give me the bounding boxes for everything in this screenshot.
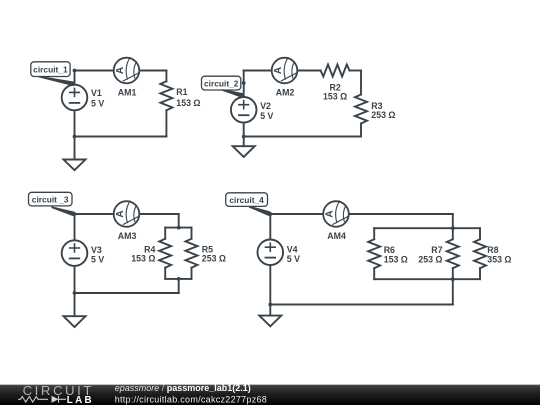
V3 minus sign: [70, 257, 80, 259]
ammeter AM2: [272, 58, 298, 84]
wire corner down to parallel top: [178, 214, 180, 228]
wire R6 bottom lead: [373, 268, 375, 279]
wire node to AM3: [75, 213, 114, 215]
ammeter AM1: [114, 58, 140, 84]
svg-text:353 Ω: 353 Ω: [487, 254, 511, 264]
svg-text:AM1: AM1: [118, 88, 137, 98]
svg-text:V2: V2: [260, 101, 271, 111]
AM3 needle: [123, 216, 139, 224]
AM1 dial arcs: [126, 58, 136, 80]
wire V1 bottom: [74, 110, 76, 136]
wire AM4 to corner: [349, 213, 453, 215]
junction R4 R5 bottom: [177, 277, 181, 281]
wire R5 bottom lead: [191, 268, 193, 279]
voltage source V3: [62, 240, 88, 266]
wire bottom rail R6 R7 R8: [374, 278, 480, 280]
svg-text:AM3: AM3: [118, 231, 137, 241]
wire R4 top lead: [164, 228, 166, 239]
svg-text:153 Ω: 153 Ω: [384, 254, 408, 264]
wire AM3 to corner: [139, 213, 178, 215]
resistor R3: [355, 95, 367, 124]
svg-text:A: A: [115, 67, 126, 74]
V4 minus sign: [266, 257, 276, 259]
wire corner to V3 top: [74, 214, 76, 240]
wire R5 top lead: [191, 228, 193, 239]
flag pointer circuit_2: [220, 89, 244, 99]
svg-text:153 Ω: 153 Ω: [131, 254, 155, 264]
wire parallel bottom down: [452, 279, 454, 304]
flag box circuit_1: [31, 62, 70, 77]
ground circuit 4: [259, 316, 281, 327]
wire bottom rail circuit 3: [75, 292, 179, 294]
resistor R8: [474, 239, 486, 268]
wire R3 bottom lead: [360, 124, 362, 137]
svg-text:http://circuitlab.com/cakcz227: http://circuitlab.com/cakcz2277pz68: [115, 394, 267, 404]
svg-text:153 Ω: 153 Ω: [176, 98, 200, 108]
svg-text:253 Ω: 253 Ω: [418, 254, 442, 264]
AM3 dial arcs: [126, 201, 136, 223]
wire node to AM1: [75, 70, 114, 72]
V2 minus sign: [239, 114, 249, 116]
wire bottom rail R4 R5: [165, 278, 191, 280]
wire ground stub circuit 1: [74, 137, 76, 160]
AM1 needle: [123, 73, 139, 81]
node circuit_4 flag attach: [268, 212, 272, 216]
wire R6 top lead: [373, 228, 375, 239]
wire R4 bottom lead: [164, 268, 166, 279]
svg-text:A: A: [273, 67, 284, 74]
voltage source V2: [231, 97, 257, 123]
junction node circuit 1 top: [73, 69, 77, 73]
wire bottom rail circuit 2: [244, 136, 361, 138]
flag box circuit_2: [202, 76, 241, 90]
wire V1 top to node: [74, 71, 76, 85]
svg-text:253 Ω: 253 Ω: [371, 110, 395, 120]
wire bottom rail circuit 1: [75, 136, 167, 138]
wire R7 bottom lead: [452, 268, 454, 279]
wire R2 to corner: [350, 70, 362, 72]
AM4 dial arcs: [336, 201, 346, 223]
svg-text:R1: R1: [176, 87, 187, 97]
svg-text:circuit_4: circuit_4: [229, 195, 264, 205]
wire corner to AM2: [244, 70, 272, 72]
junction circuit 2 bottom: [242, 135, 246, 139]
wire R1 bottom lead: [165, 110, 167, 136]
svg-text:circuit_1: circuit_1: [33, 64, 68, 74]
footer bar: [0, 385, 540, 405]
svg-text:A: A: [324, 210, 335, 217]
svg-text:V4: V4: [287, 244, 298, 254]
resistor R6: [368, 239, 380, 268]
wire top rail R4 R5: [165, 227, 191, 229]
svg-text:253 Ω: 253 Ω: [202, 254, 226, 264]
junction R6 R7 R8 top: [451, 226, 455, 230]
svg-text:5 V: 5 V: [287, 254, 300, 264]
voltage source V4: [258, 240, 284, 266]
wire R8 top lead: [479, 228, 481, 239]
wire parallel bottom down: [178, 279, 180, 293]
wire top rail R6 R7 R8: [374, 227, 480, 229]
V2 plus sign: [239, 101, 249, 109]
svg-text:5 V: 5 V: [91, 98, 104, 108]
ground circuit 2: [233, 146, 255, 157]
junction R6 R7 R8 bottom: [451, 277, 455, 281]
wire V2 bottom: [243, 123, 245, 137]
resistor R7: [447, 239, 459, 268]
flag pointer circuit_3: [51, 206, 74, 216]
wire ground stub circuit 4: [269, 305, 271, 316]
V1 minus sign: [70, 102, 80, 104]
ground circuit 3: [64, 316, 86, 327]
logo diode triangle: [52, 396, 59, 403]
svg-text:A: A: [115, 210, 126, 217]
wire bottom rail circuit 4: [270, 304, 453, 306]
wire R7 top lead: [452, 228, 454, 239]
wire V4 bottom: [269, 265, 271, 304]
voltage source V1: [62, 85, 88, 111]
wire AM2 to R2: [297, 70, 320, 72]
junction R4 R5 top: [177, 226, 181, 230]
wire corner down to parallel top: [452, 214, 454, 228]
wire R3 top lead: [360, 71, 362, 95]
wire ground stub circuit 3: [74, 293, 76, 316]
resistor R4: [159, 239, 171, 268]
node circuit_2 flag attach: [242, 81, 246, 85]
junction circuit 3 bottom: [73, 291, 77, 295]
svg-text:153 Ω: 153 Ω: [323, 92, 347, 102]
V1 plus sign: [70, 88, 80, 96]
svg-text:LAB: LAB: [67, 395, 94, 405]
junction circuit 4 bottom: [268, 303, 272, 307]
resistor R2: [321, 65, 350, 77]
svg-text:AM4: AM4: [327, 231, 346, 241]
svg-text:AM2: AM2: [276, 88, 295, 98]
flag box circuit_3: [29, 192, 73, 206]
svg-text:5 V: 5 V: [260, 111, 273, 121]
flag pointer circuit_4: [249, 206, 271, 216]
AM4 needle: [333, 216, 349, 224]
wire R1 top lead: [165, 71, 167, 82]
wire V2 top to corner: [243, 71, 245, 98]
resistor R5: [186, 239, 198, 268]
svg-text:5 V: 5 V: [91, 255, 104, 265]
node circuit_3 flag attach: [73, 212, 77, 216]
flag box circuit_4: [226, 193, 268, 207]
svg-text:V3: V3: [91, 245, 102, 255]
ammeter AM3: [114, 201, 140, 227]
AM2 dial arcs: [284, 58, 294, 80]
flag pointer circuit_1: [39, 76, 75, 87]
svg-text:circuit _3: circuit _3: [32, 194, 69, 204]
ground circuit 1: [64, 160, 86, 171]
junction circuit 1 bottom: [73, 135, 77, 139]
resistor R1: [160, 81, 172, 110]
wire corner to V4 top: [269, 214, 271, 240]
wire ground stub circuit 2: [243, 137, 245, 147]
V4 plus sign: [266, 243, 276, 251]
svg-text:epassmore / passmore_lab1(2.1): epassmore / passmore_lab1(2.1): [115, 383, 251, 393]
wire R8 bottom lead: [479, 268, 481, 279]
wire AM1 to R1 corner: [139, 70, 166, 72]
logo resistor squiggle and diode: [18, 396, 66, 403]
wire V3 bottom: [74, 266, 76, 293]
wire node to AM4: [270, 213, 323, 215]
svg-text:V1: V1: [91, 88, 102, 98]
AM2 needle: [281, 73, 297, 81]
ammeter AM4: [323, 201, 349, 227]
V3 plus sign: [70, 244, 80, 252]
svg-text:circuit_2: circuit_2: [204, 78, 239, 88]
